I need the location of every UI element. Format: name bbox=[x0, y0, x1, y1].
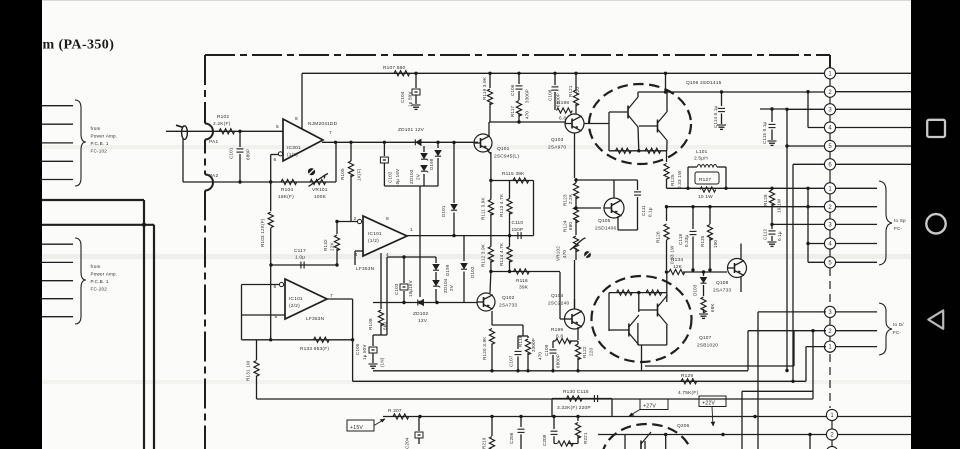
op-amp IC101 (2/2) bbox=[285, 279, 327, 319]
svg-text:(LN): (LN) bbox=[380, 357, 385, 367]
svg-text:from: from bbox=[91, 126, 101, 131]
svg-text:Q105: Q105 bbox=[598, 218, 611, 224]
wire right of pin group3 1 bbox=[836, 346, 877, 348]
capacitor C118 bbox=[692, 207, 694, 229]
wire group2 pin5 left bbox=[808, 261, 826, 263]
svg-text:R123: R123 bbox=[563, 194, 568, 206]
svg-text:Q101: Q101 bbox=[497, 146, 510, 152]
dashed ellipse Q107 group bbox=[592, 276, 692, 362]
wire Q104 emitter bbox=[577, 327, 579, 340]
border dash-dot top bbox=[205, 54, 830, 56]
Q106 emitter resistor b bbox=[645, 148, 661, 153]
svg-text:(1/2): (1/2) bbox=[287, 152, 298, 158]
border bump PA1 bbox=[205, 124, 213, 140]
stair vertical F bottom bbox=[757, 399, 759, 449]
wire input PA1 bbox=[166, 130, 283, 132]
wire Q106 top to bus bbox=[665, 73, 667, 92]
connector pin 3 group2 bbox=[824, 219, 835, 230]
svg-text:(1/2): (1/2) bbox=[368, 238, 379, 244]
connector pin 5 group1 bbox=[824, 140, 835, 151]
border dash-dot left vertical lower bbox=[204, 191, 206, 449]
zener ZD101 bbox=[416, 139, 421, 145]
group4 spine bbox=[831, 409, 833, 449]
Q107 collector wires bbox=[637, 323, 639, 345]
svg-text:R130 C116: R130 C116 bbox=[563, 389, 589, 395]
capacitor C206 bbox=[520, 417, 522, 428]
Q107 top rail bbox=[609, 292, 667, 294]
svg-text:R131 1M: R131 1M bbox=[246, 361, 251, 381]
svg-text:R198: R198 bbox=[557, 100, 569, 106]
svg-text:R121: R121 bbox=[568, 85, 573, 97]
capacitor C106 / resistor R117 bbox=[518, 73, 520, 84]
brace to Sp bbox=[879, 181, 892, 265]
zener ZD104 bbox=[433, 281, 439, 286]
svg-text:R124: R124 bbox=[563, 220, 568, 232]
group4 pin2 drop wire bbox=[809, 435, 811, 449]
svg-text:+27V: +27V bbox=[643, 404, 656, 410]
Q107 resistor b bbox=[646, 290, 662, 295]
svg-text:C107: C107 bbox=[509, 355, 514, 367]
svg-text:R133 953(F): R133 953(F) bbox=[300, 346, 329, 352]
svg-text:2.2K(F): 2.2K(F) bbox=[213, 121, 231, 127]
wire Q102 collector bbox=[489, 272, 492, 294]
svg-text:C117: C117 bbox=[294, 248, 306, 254]
resistor R113 bbox=[509, 181, 511, 199]
Q106 base wire bbox=[584, 123, 609, 125]
svg-text:ZD101 12V: ZD101 12V bbox=[398, 127, 425, 133]
stair vertical E to bottom bbox=[741, 391, 743, 449]
svg-text:R111 3.9K: R111 3.9K bbox=[481, 196, 486, 220]
resistor R123 bbox=[575, 178, 577, 183]
wire right of pin 3 group2 bbox=[836, 223, 877, 225]
wire cap rail top bbox=[518, 335, 528, 337]
svg-text:68K: 68K bbox=[710, 303, 715, 312]
wire right of pin 4 group1 bbox=[836, 127, 911, 129]
Q107 exit bottom bbox=[641, 345, 643, 371]
Q107 transistor b bbox=[657, 304, 659, 317]
connector pin 3 group4 partial bbox=[826, 446, 837, 449]
svg-text:FC-: FC- bbox=[893, 330, 902, 335]
svg-text:R116: R116 bbox=[516, 278, 528, 284]
brace FC-102 bbox=[75, 100, 86, 186]
stair vertical B bbox=[805, 347, 807, 382]
svg-text:C111: C111 bbox=[641, 205, 646, 216]
+22V box bbox=[699, 396, 726, 407]
svg-text:2SA733: 2SA733 bbox=[713, 288, 731, 294]
long vertical from pin6 line bbox=[792, 164, 794, 381]
wire Q101 collector bbox=[488, 122, 490, 136]
svg-text:8: 8 bbox=[295, 116, 298, 122]
svg-text:FC-: FC- bbox=[894, 226, 903, 231]
resistor R103 bbox=[270, 182, 272, 211]
connector pin 6 group1 bbox=[824, 159, 835, 170]
svg-text:C103: C103 bbox=[394, 283, 399, 295]
connector pin 3 group1 bbox=[824, 104, 835, 115]
svg-text:PA2: PA2 bbox=[209, 173, 218, 179]
resistor R126 bbox=[666, 207, 668, 221]
border dash-dot left vertical upper bbox=[204, 55, 206, 124]
op-amp IC101 (1/2) bbox=[363, 216, 407, 256]
svg-text:C106: C106 bbox=[510, 84, 515, 96]
capacitor C107 bbox=[517, 336, 519, 349]
svg-text:+15V: +15V bbox=[350, 425, 363, 431]
svg-text:R103 12K(F): R103 12K(F) bbox=[260, 218, 265, 247]
svg-text:0.33μ: 0.33μ bbox=[684, 234, 689, 247]
svg-text:3300P: 3300P bbox=[525, 89, 530, 103]
connector pin 1 group1 bbox=[824, 68, 835, 79]
zener ZD102 wire bbox=[373, 302, 477, 304]
rail B left vertical bbox=[352, 340, 354, 382]
wire R108 bottom bbox=[373, 334, 387, 336]
wire VR102 down to Q104 collector bbox=[574, 260, 576, 309]
faint scan band middle bbox=[42, 254, 911, 259]
svg-text:18K(F): 18K(F) bbox=[278, 194, 294, 200]
svg-text:C204: C204 bbox=[405, 437, 410, 449]
top bus wire bbox=[302, 72, 826, 74]
wire R131 bottom rail bbox=[257, 398, 814, 400]
resistor R135 bbox=[709, 207, 711, 224]
svg-text:0.1μ: 0.1μ bbox=[648, 207, 653, 217]
connector column group1 spine bbox=[829, 68, 831, 183]
resistor R220 bottom loop bbox=[554, 443, 557, 445]
connector column group2 spine bbox=[829, 183, 831, 268]
transistor Q108 bbox=[728, 259, 747, 278]
svg-text:C108: C108 bbox=[548, 89, 553, 101]
vertical link x808 group1 bbox=[807, 92, 809, 128]
feedback rail IC101b bbox=[241, 285, 243, 340]
connector pin 4 group1 bbox=[824, 122, 835, 133]
svg-text:1: 1 bbox=[410, 227, 413, 233]
capacitor C103 bbox=[403, 291, 405, 303]
svg-text:L101: L101 bbox=[696, 149, 708, 155]
potentiometer VR102 bbox=[573, 236, 578, 252]
brace to D/ bbox=[879, 303, 892, 355]
top hairline bbox=[42, 0, 911, 2]
resistor R111 bbox=[488, 200, 493, 216]
svg-text:10μ16V: 10μ16V bbox=[408, 280, 413, 297]
svg-text:Q107: Q107 bbox=[699, 335, 712, 341]
resistor R131 bbox=[256, 340, 258, 360]
svg-text:C105: C105 bbox=[355, 343, 360, 355]
stair horizontal E bbox=[742, 390, 813, 392]
svg-text:D198: D198 bbox=[429, 158, 434, 170]
wire bias rail y122 bbox=[490, 121, 566, 123]
wire Q101 emitter bbox=[487, 150, 491, 154]
svg-text:Q206: Q206 bbox=[677, 423, 690, 429]
svg-text:C101: C101 bbox=[229, 147, 234, 159]
resistor R221 bbox=[577, 417, 579, 422]
svg-text:R125: R125 bbox=[670, 174, 675, 186]
svg-text:C118: C118 bbox=[678, 233, 683, 245]
wire IC101a pin4 down bbox=[380, 253, 382, 303]
zener ZD102 bbox=[419, 300, 424, 306]
svg-text:Q106 2SD1415: Q106 2SD1415 bbox=[686, 80, 722, 86]
wire R119 bottom to Q101 collector bbox=[489, 121, 490, 123]
wire group1 pin5 left bbox=[787, 145, 826, 147]
svg-text:LF353N: LF353N bbox=[356, 266, 375, 272]
wire Q101 emitter to R115 node bbox=[490, 152, 492, 181]
border bump PA2 bbox=[205, 175, 213, 191]
stair vertical C bbox=[757, 312, 759, 399]
output wire extension to C110 bbox=[464, 235, 534, 237]
upper cluster wire bbox=[387, 256, 436, 258]
svg-text:R134: R134 bbox=[671, 257, 683, 263]
svg-text:1.0μ: 1.0μ bbox=[295, 255, 305, 261]
capacitor C101 bbox=[239, 131, 241, 147]
svg-text:to Sp: to Sp bbox=[894, 218, 906, 223]
wire group2 pin2 left bbox=[808, 206, 826, 208]
svg-text:2SC2240: 2SC2240 bbox=[548, 301, 570, 307]
resistor R107 bbox=[394, 71, 410, 76]
dashed ellipse Q106 group bbox=[589, 84, 691, 164]
faint scan band upper bbox=[42, 145, 911, 149]
svg-text:2SA733: 2SA733 bbox=[499, 303, 517, 309]
stair vertical D bbox=[812, 331, 814, 399]
svg-text:R117: R117 bbox=[510, 105, 515, 117]
lower rail of zener cell bbox=[384, 185, 438, 187]
Q107 right vertical to R134 rail bbox=[666, 272, 668, 302]
resistor R133 bbox=[314, 337, 330, 342]
wire IC101b output bbox=[327, 298, 353, 300]
svg-text:C208: C208 bbox=[542, 434, 547, 446]
wire group1 pin4 left bbox=[808, 127, 826, 129]
svg-text:100K: 100K bbox=[314, 194, 327, 200]
svg-text:FC-202: FC-202 bbox=[91, 287, 108, 292]
screw mark VR102 bbox=[584, 251, 591, 258]
stair wire y366 bbox=[645, 365, 794, 367]
diode D101 top link bbox=[453, 143, 455, 204]
nav home circle bbox=[926, 214, 945, 233]
wire feedback bottom bbox=[271, 181, 336, 183]
wire right of pin 3 group1 bbox=[836, 108, 911, 110]
svg-text:470: 470 bbox=[525, 111, 530, 119]
Q106 bottom rail bbox=[609, 150, 667, 152]
svg-text:220: 220 bbox=[589, 347, 594, 356]
svg-text:1μ 50V: 1μ 50V bbox=[362, 344, 367, 360]
svg-text:C110: C110 bbox=[512, 220, 524, 225]
svg-text:R120 3.9K: R120 3.9K bbox=[482, 336, 487, 360]
wire right of pin 6 group1 bbox=[836, 163, 911, 165]
svg-text:39K: 39K bbox=[519, 285, 529, 291]
wire IC301 output bbox=[322, 141, 478, 143]
svg-text:2SA970: 2SA970 bbox=[548, 145, 566, 151]
svg-text:0.33 1W: 0.33 1W bbox=[677, 170, 682, 189]
wire Q108 collector bbox=[740, 244, 742, 261]
resistor R125 bbox=[666, 151, 668, 162]
svg-text:2SD1406: 2SD1406 bbox=[595, 226, 617, 232]
cluster left vertical bbox=[386, 257, 388, 335]
Q106 interior collector wires bbox=[637, 92, 639, 97]
capacitor C102 bbox=[383, 142, 385, 156]
nav recents square bbox=[927, 120, 945, 137]
wire C115 top stub bbox=[760, 108, 787, 110]
capacitor C109 bbox=[552, 341, 554, 348]
resistor R108 bbox=[380, 303, 382, 310]
nav bar background bbox=[911, 0, 960, 449]
wire R133 bbox=[242, 339, 353, 341]
wire IC101a output bbox=[407, 235, 464, 237]
svg-text:C104: C104 bbox=[400, 91, 405, 103]
svg-text:R129: R129 bbox=[681, 373, 693, 379]
wire R126 top bbox=[667, 206, 809, 208]
+27V box bbox=[640, 399, 668, 410]
svg-text:IC301: IC301 bbox=[287, 145, 301, 151]
dashed spine between group2 and group3 bbox=[829, 268, 831, 305]
wire Q105 base bbox=[576, 207, 601, 209]
svg-text:R119 3.9K: R119 3.9K bbox=[482, 76, 487, 100]
svg-text:P.C.B. 1: P.C.B. 1 bbox=[91, 279, 109, 284]
Q106 transistor a bbox=[627, 106, 629, 119]
vertical link x808 group2 bbox=[807, 188, 809, 262]
jack PA1 tip bbox=[176, 125, 183, 127]
+22V arrow bbox=[712, 407, 713, 427]
speaker rail bbox=[667, 187, 827, 189]
svg-text:C114 0.1μ: C114 0.1μ bbox=[713, 105, 718, 128]
capacitor C114 bbox=[721, 92, 723, 106]
wire R116 bbox=[491, 271, 560, 273]
svg-text:12V: 12V bbox=[418, 318, 428, 324]
L101 terminals bbox=[688, 166, 697, 168]
+27V arrow bbox=[629, 410, 640, 417]
resistor R114 bbox=[507, 247, 512, 263]
capacitor C115 bbox=[771, 109, 773, 122]
svg-text:(2/2): (2/2) bbox=[289, 303, 300, 309]
svg-text:R102: R102 bbox=[217, 114, 229, 120]
svg-text:R107 560: R107 560 bbox=[383, 65, 406, 71]
svg-text:VR102: VR102 bbox=[556, 246, 561, 261]
svg-text:R132: R132 bbox=[323, 239, 328, 251]
wire Q108 emitter bbox=[740, 276, 742, 292]
transistor Q105 bbox=[604, 198, 624, 218]
wire Q105 emitter bbox=[617, 216, 619, 230]
R130 branch verticals bbox=[551, 399, 553, 417]
svg-text:22K: 22K bbox=[330, 241, 335, 251]
svg-text:C109: C109 bbox=[544, 344, 549, 356]
rail A (emitter resistors) bbox=[373, 370, 748, 372]
svg-text:Q102: Q102 bbox=[502, 295, 515, 301]
svg-text:R128: R128 bbox=[763, 194, 768, 206]
svg-text:R219: R219 bbox=[482, 437, 487, 449]
resistor R120 bbox=[489, 329, 494, 345]
svg-text:IC101: IC101 bbox=[368, 231, 382, 237]
svg-text:470: 470 bbox=[562, 250, 567, 258]
resistor R119 bbox=[489, 73, 491, 88]
svg-text:Power Amp.: Power Amp. bbox=[91, 272, 118, 277]
svg-text:2V: 2V bbox=[416, 174, 421, 180]
Q206 interior transistor bbox=[640, 441, 642, 449]
svg-text:VR101: VR101 bbox=[312, 187, 328, 193]
potentiometer VR101 bbox=[310, 179, 326, 184]
wire Q104 collector bbox=[574, 299, 576, 309]
capacitor C111 bbox=[637, 180, 639, 190]
svg-text:R118: R118 bbox=[518, 335, 523, 347]
capacitor C112 bbox=[770, 223, 773, 226]
connector pin 5 group2 bbox=[824, 257, 835, 268]
stair vertical G bbox=[793, 331, 795, 366]
diode D199 bbox=[435, 257, 437, 263]
svg-text:Q104: Q104 bbox=[551, 293, 564, 299]
resistor R102 bbox=[219, 129, 235, 134]
svg-text:m (PA-350): m (PA-350) bbox=[43, 38, 115, 53]
wire right of pin 4 group2 bbox=[836, 243, 877, 245]
wire Q104 base bbox=[560, 318, 564, 320]
zener ZD103 bbox=[423, 146, 425, 152]
capacitor C208 bbox=[553, 417, 555, 430]
svg-text:R113 4.7K: R113 4.7K bbox=[499, 193, 504, 217]
connector pin group3 3 bbox=[824, 306, 835, 317]
thick wire B horizontal bbox=[42, 224, 154, 226]
svg-text:R114 4.7K: R114 4.7K bbox=[499, 242, 504, 266]
svg-text:2SB1020: 2SB1020 bbox=[697, 343, 718, 349]
jack PA1 barrel bbox=[182, 126, 188, 140]
svg-text:P.C.B. 1: P.C.B. 1 bbox=[91, 141, 109, 146]
svg-text:C112: C112 bbox=[763, 228, 768, 240]
svg-text:6800P: 6800P bbox=[556, 354, 561, 368]
wire x271 vertical bbox=[270, 265, 272, 340]
svg-text:R115 39K: R115 39K bbox=[502, 171, 525, 177]
Q106 transistor b bbox=[657, 120, 659, 133]
svg-text:1μ 50V: 1μ 50V bbox=[408, 91, 413, 107]
long vertical from pin3 line bbox=[786, 109, 788, 370]
svg-text:C115 0.1μ: C115 0.1μ bbox=[762, 121, 767, 144]
svg-text:from: from bbox=[91, 264, 101, 269]
svg-text:R221: R221 bbox=[583, 432, 588, 444]
svg-text:Q103: Q103 bbox=[551, 137, 564, 143]
+15V arrow bbox=[374, 419, 385, 426]
wire bus2 bbox=[666, 91, 827, 93]
wire group3 pin2 left bbox=[748, 330, 826, 332]
svg-text:6: 6 bbox=[274, 157, 277, 163]
wire group3 pin3 left bbox=[758, 311, 826, 313]
connector pin 2 group2 bbox=[824, 201, 835, 212]
connector pin 1 group4 bbox=[826, 409, 837, 420]
wire Q102 emitter bbox=[491, 311, 493, 325]
wire right of pin group3 2 bbox=[836, 330, 877, 332]
wire R134 bbox=[667, 271, 670, 273]
svg-text:R105: R105 bbox=[340, 168, 345, 180]
stair vertical A bbox=[747, 331, 749, 371]
thick wire A horizontal bbox=[42, 199, 144, 201]
svg-text:R199: R199 bbox=[551, 327, 563, 333]
svg-text:10 1W: 10 1W bbox=[698, 194, 713, 200]
svg-text:10 1W: 10 1W bbox=[777, 198, 782, 213]
svg-text:C206: C206 bbox=[509, 432, 514, 444]
svg-text:ZD102: ZD102 bbox=[413, 311, 429, 317]
svg-text:7: 7 bbox=[329, 130, 332, 136]
left black sidebar bbox=[0, 0, 42, 449]
svg-text:IC101: IC101 bbox=[289, 296, 303, 302]
from Power Amp FC-202 lines bbox=[42, 243, 73, 245]
svg-text:D199: D199 bbox=[445, 264, 450, 276]
svg-text:R126: R126 bbox=[656, 231, 661, 243]
wire Q105 collector rail bbox=[576, 179, 638, 181]
wire Q103 collector down bbox=[574, 133, 576, 178]
dashed ellipse Q206 group bbox=[602, 424, 692, 449]
svg-text:680P: 680P bbox=[246, 149, 251, 160]
diode D198 bbox=[437, 142, 439, 148]
capacitor C204 bbox=[418, 417, 420, 432]
svg-text:5: 5 bbox=[276, 124, 279, 130]
svg-text:2SC945(L): 2SC945(L) bbox=[494, 154, 519, 160]
connector pin 2 group1 bbox=[824, 86, 835, 97]
svg-text:0.1μ: 0.1μ bbox=[777, 231, 782, 241]
thick wire A vertical bbox=[143, 200, 145, 449]
Q206 interior stub wires bbox=[624, 435, 626, 449]
svg-text:+22V: +22V bbox=[702, 401, 715, 407]
svg-text:470: 470 bbox=[538, 352, 543, 360]
svg-text:Q108: Q108 bbox=[716, 280, 729, 286]
wire IC301 feedback left bbox=[271, 154, 279, 156]
